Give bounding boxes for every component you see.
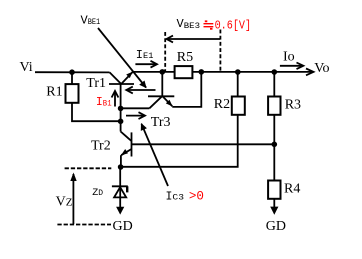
svg-text:GD: GD [113, 219, 133, 234]
svg-text:R5: R5 [177, 50, 193, 65]
annotation VBE3 dashed line right [219, 30, 221, 72]
svg-text:Tr3: Tr3 [151, 115, 171, 130]
resistor R2 [232, 97, 245, 115]
svg-text:R2: R2 [214, 97, 230, 112]
node zener top [118, 164, 124, 170]
annotation Vz dashed line top [65, 167, 112, 169]
transistor Tr2 [121, 132, 132, 157]
wire output rail left of R5 [133, 71, 175, 73]
wire Tr3 emitter to rail node [172, 72, 201, 107]
wire Tr3 collector to base node [121, 107, 150, 109]
wire Vi input rail [35, 71, 110, 73]
svg-text:Vi: Vi [20, 60, 33, 75]
zener diode ZD [112, 167, 128, 209]
wire Tr1 base lead down [120, 84, 122, 132]
transistor Tr1 [109, 72, 134, 84]
wire R3 top lead [273, 72, 275, 97]
arrowhead Vo [306, 69, 314, 76]
svg-text:Tr1: Tr1 [86, 76, 106, 91]
ground arrow left [116, 207, 124, 215]
svg-text:VZ: VZ [56, 195, 73, 210]
node R3 on rail [272, 69, 278, 75]
wire zener node to R2 bottom [121, 115, 238, 167]
node Vi/R1 junction [69, 69, 75, 75]
svg-text:IE1: IE1 [136, 48, 154, 62]
wire Tr2 emitter down to zener node [120, 155, 122, 167]
svg-text:IC3: IC3 [166, 190, 185, 203]
svg-text:R4: R4 [284, 181, 300, 196]
svg-text:IB1: IB1 [96, 96, 112, 109]
wire R1 top lead [71, 72, 73, 84]
svg-text:VBE1: VBE1 [81, 13, 101, 27]
annotation Io arrow [280, 63, 304, 70]
resistor R5 [175, 66, 193, 78]
annotation VBE3 arrow [167, 36, 221, 43]
wire output rail right of R5 to Vo [192, 71, 312, 73]
node Tr3 base on rail [160, 69, 166, 75]
wire R2 top to rail [237, 72, 239, 97]
wire R3 bottom to divider node [273, 115, 275, 145]
annotation arrow left (Tr3 base current) [126, 87, 155, 94]
transistor Tr3 [148, 72, 174, 108]
annotation VBE3 dashed line left [164, 32, 166, 71]
svg-text:>0: >0 [189, 189, 204, 203]
annotation arrow right (into Tr3) [126, 112, 145, 119]
node R2 on rail [235, 69, 241, 75]
svg-text:GD: GD [266, 219, 286, 234]
wire R1 bottom to base node [72, 103, 121, 121]
annotation IC3 pointer arrow [142, 124, 169, 186]
ground arrow right [270, 207, 278, 215]
wire Tr2 base to divider [132, 143, 275, 145]
annotation IE1 arrow [135, 61, 157, 68]
svg-text:Vo: Vo [314, 61, 329, 76]
node Tr1 base / R1 [118, 119, 124, 125]
node Tr1 base / Tr3 collector [118, 106, 124, 112]
svg-text:ZD: ZD [92, 188, 103, 199]
svg-text:R3: R3 [285, 97, 301, 112]
svg-text:Io: Io [283, 49, 295, 64]
annotation 0.6V value (red) [204, 21, 214, 29]
node Tr3 emitter return on rail [199, 69, 205, 75]
annotation Vz dashed line bottom [57, 224, 111, 226]
annotation Vz arrow [70, 173, 76, 225]
svg-text:VBE3: VBE3 [177, 17, 201, 31]
svg-text:R1: R1 [46, 85, 62, 100]
annotation IB1 up arrow [112, 91, 119, 107]
svg-text:Tr2: Tr2 [91, 139, 111, 154]
resistor R3 [268, 97, 280, 115]
node divider midpoint [272, 142, 278, 148]
wire divider node to R4 [273, 144, 275, 180]
resistor R4 [268, 181, 280, 199]
annotation VBE1 pointer arrow [98, 28, 146, 88]
wire R4 bottom to ground [273, 199, 275, 209]
resistor R1 [66, 84, 79, 103]
